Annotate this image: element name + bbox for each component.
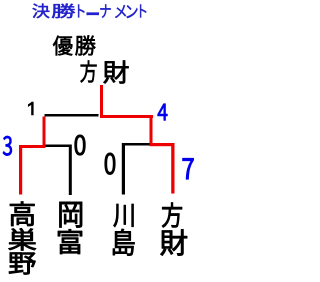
title 決勝トーナメント [33, 3, 147, 18]
wire: 高巣野 team line (red) [19, 145, 22, 195]
score 0 (岡富, semifinal) [75, 135, 86, 155]
score 0 (川島, semifinal) [105, 153, 115, 175]
score 7 (方財, semifinal) [183, 158, 194, 179]
team 方財 (runner-up branch) [161, 202, 188, 255]
wire: 川島 team line (black) [122, 143, 125, 195]
wire: right semifinal horizontal left (black) [122, 143, 150, 146]
wire: final horizontal right (red) [100, 115, 153, 118]
wire: final horizontal left (black) [45, 114, 99, 117]
wire: champion vertical (red) [100, 85, 103, 118]
team 川島 [113, 204, 134, 255]
score 4 (方財, final) [158, 104, 168, 121]
wire: left semifinal horizontal right (black) [46, 145, 72, 148]
label 優勝 (champion) [53, 35, 96, 55]
wire: 方財 team line (red) [171, 143, 174, 194]
score 1 (高巣野, final) [28, 102, 33, 115]
wire: left semifinal horizontal left (red) [19, 145, 46, 148]
wire: left semifinal riser (red) [43, 117, 46, 148]
wire: right semifinal horizontal right (red) [150, 143, 175, 146]
champion name 方財 [80, 61, 128, 84]
team 高巣野 [9, 201, 37, 274]
wire: right semifinal riser (red) [150, 115, 153, 146]
team 岡富 [58, 202, 82, 254]
wire: 岡富 team line (black) [69, 145, 72, 196]
score 3 (高巣野, semifinal) [3, 136, 12, 155]
